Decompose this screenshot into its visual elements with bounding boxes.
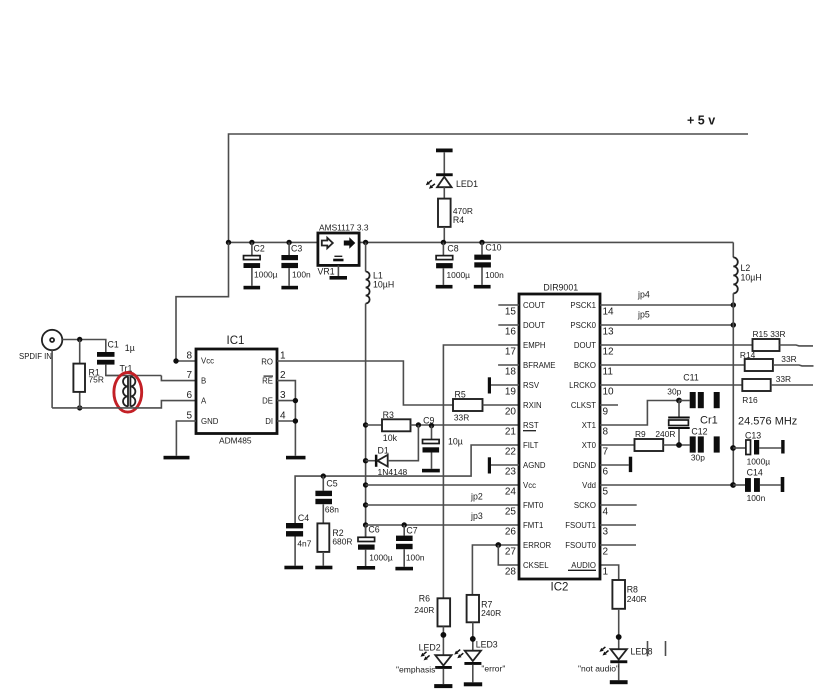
pin 2 FSOUT0 stub <box>600 544 636 546</box>
resistor R3 10k <box>363 422 368 427</box>
svg-text:3: 3 <box>603 527 609 538</box>
svg-text:XT0: XT0 <box>582 441 597 450</box>
resistor R16 33R <box>742 379 770 391</box>
wire connector ground loop <box>51 350 53 408</box>
junction C5 tap <box>321 473 326 478</box>
light arrows LED8 <box>599 647 608 656</box>
capacitor C7 100n <box>402 522 407 527</box>
svg-text:2: 2 <box>280 370 286 381</box>
stray tick marks right of LED8 <box>647 641 649 656</box>
wire 3.3V rail right segment (VR1 output to L2) <box>359 241 733 243</box>
svg-text:RST: RST <box>523 421 539 430</box>
svg-text:DOUT: DOUT <box>523 321 545 330</box>
svg-text:24.576 MHz: 24.576 MHz <box>738 416 797 428</box>
capacitor C9 10u electrolytic <box>431 426 433 440</box>
svg-text:15: 15 <box>505 307 517 318</box>
junction LED3 anode <box>470 636 476 642</box>
junction LED2 anode <box>441 632 447 638</box>
highlight red ellipse around Tr1 <box>114 373 142 413</box>
svg-text:240R: 240R <box>481 608 501 618</box>
resistor R4 470R <box>443 187 445 198</box>
svg-text:B: B <box>201 377 206 386</box>
svg-text:16: 16 <box>505 327 517 338</box>
svg-text:SPDIF IN: SPDIF IN <box>19 352 52 361</box>
svg-text:1000µ: 1000µ <box>747 457 771 467</box>
pin 5 Vdd <box>600 484 733 486</box>
led LED1 <box>443 152 445 176</box>
svg-text:C4: C4 <box>298 513 309 523</box>
svg-text:PSCK1: PSCK1 <box>570 301 596 310</box>
wire connector top to C1 <box>62 340 106 353</box>
capacitor C11 30p <box>679 400 690 402</box>
svg-text:11: 11 <box>603 367 614 378</box>
output arrow filled <box>344 237 356 248</box>
pin 7 XT0 <box>600 444 635 446</box>
crystal Cr1 <box>678 401 680 417</box>
svg-text:R9: R9 <box>635 429 646 439</box>
svg-text:10k: 10k <box>383 433 398 443</box>
light arrows LED3 <box>454 650 463 659</box>
svg-text:C5: C5 <box>326 478 337 488</box>
svg-text:LED3: LED3 <box>476 640 498 650</box>
svg-text:RE: RE <box>262 377 273 386</box>
svg-text:14: 14 <box>603 307 615 318</box>
svg-text:100n: 100n <box>292 270 311 280</box>
pin 15 COUT <box>498 304 519 306</box>
svg-text:CKSEL: CKSEL <box>523 561 549 570</box>
svg-text:VR1: VR1 <box>318 267 335 277</box>
svg-text:7: 7 <box>603 447 609 458</box>
capacitor C13 1000u electrolytic <box>733 447 746 449</box>
svg-text:4: 4 <box>280 411 286 422</box>
resistor R7 240R <box>467 595 479 622</box>
svg-text:100n: 100n <box>485 270 504 280</box>
wire VR1 gnd pin <box>337 265 339 276</box>
svg-text:Vdd: Vdd <box>582 481 596 490</box>
wire rail to IC1 Vcc pin8 <box>176 242 229 361</box>
inductor L2 10uH <box>732 242 734 257</box>
capacitor C10 100n <box>479 240 484 245</box>
svg-text:jp2: jp2 <box>470 492 483 502</box>
junction D1 riser <box>416 422 421 427</box>
pin 16 DOUT <box>498 324 519 326</box>
svg-text:AUDIO: AUDIO <box>571 561 596 570</box>
svg-text:R5: R5 <box>455 390 466 400</box>
svg-text:R3: R3 <box>383 410 394 420</box>
svg-text:R8: R8 <box>627 585 638 595</box>
svg-text:10µH: 10µH <box>741 273 762 283</box>
svg-text:26: 26 <box>505 527 517 538</box>
svg-text:680R: 680R <box>332 537 352 547</box>
svg-text:2: 2 <box>603 547 609 558</box>
junction C8/R4 on rail <box>441 240 446 245</box>
svg-text:XT1: XT1 <box>582 421 596 430</box>
svg-text:DI: DI <box>265 417 273 426</box>
svg-text:Vcc: Vcc <box>523 481 536 490</box>
svg-text:33R: 33R <box>776 374 791 384</box>
svg-text:33R: 33R <box>781 354 796 364</box>
svg-text:8: 8 <box>186 351 192 362</box>
svg-text:R4: R4 <box>453 215 464 225</box>
inductor L1 10uH <box>365 242 367 271</box>
wire RST row R3 to IC2 pin21 <box>411 424 520 426</box>
junction R1 top <box>77 337 82 342</box>
svg-text:LRCKO: LRCKO <box>569 381 596 390</box>
svg-text:1: 1 <box>603 567 609 578</box>
svg-text:20: 20 <box>505 407 517 418</box>
svg-text:IC1: IC1 <box>227 335 245 347</box>
svg-text:17: 17 <box>505 347 517 358</box>
svg-text:27: 27 <box>505 547 517 558</box>
svg-text:+ 5 v: + 5 v <box>687 114 715 128</box>
pin 9 CLKST stub <box>600 404 618 406</box>
wire Vcc row pin24 <box>363 482 368 487</box>
wire FILT net pin22 to C5/C4 <box>295 445 519 523</box>
resistor R6 240R <box>438 598 451 626</box>
svg-text:5: 5 <box>186 411 192 422</box>
junction XT1 node <box>676 398 682 404</box>
svg-text:24: 24 <box>505 487 517 498</box>
wire Tr1 secondary top to IC1 pin7 <box>161 376 196 381</box>
pin 12 DOUT <box>600 344 753 346</box>
pin 8 XT1 <box>600 401 679 426</box>
resistor R9 240R <box>635 439 664 451</box>
ground IC1 left <box>164 456 190 460</box>
svg-text:6: 6 <box>603 467 609 478</box>
pin 14 PSCK1 <box>600 304 733 306</box>
svg-text:7: 7 <box>186 370 192 381</box>
svg-text:1N4148: 1N4148 <box>378 467 408 477</box>
svg-text:1: 1 <box>280 351 286 362</box>
wire CKSEL pin28 riser <box>498 545 519 565</box>
svg-text:C7: C7 <box>406 526 417 536</box>
svg-text:C13: C13 <box>745 431 761 441</box>
svg-text:68n: 68n <box>325 504 339 514</box>
svg-text:LED8: LED8 <box>631 647 653 657</box>
svg-text:1000µ: 1000µ <box>254 270 278 280</box>
svg-text:Vcc: Vcc <box>201 357 214 366</box>
led LED3 <box>465 651 481 661</box>
led LED8 "not audio" <box>611 649 627 659</box>
svg-text:AGND: AGND <box>523 461 546 470</box>
svg-text:R16: R16 <box>742 395 758 405</box>
svg-text:L2: L2 <box>741 263 751 273</box>
svg-text:BCKO: BCKO <box>574 361 596 370</box>
svg-text:BFRAME: BFRAME <box>523 361 556 370</box>
svg-text:RXIN: RXIN <box>523 401 542 410</box>
svg-text:FSOUT1: FSOUT1 <box>565 521 596 530</box>
svg-text:100n: 100n <box>406 553 425 563</box>
svg-text:A: A <box>201 397 207 406</box>
svg-text:ERROR: ERROR <box>523 541 552 550</box>
svg-text:Cr1: Cr1 <box>700 415 718 427</box>
svg-text:9: 9 <box>603 407 609 418</box>
svg-text:R14: R14 <box>740 350 756 360</box>
diode D1 1N4148 <box>363 458 368 463</box>
light arrows LED2 <box>421 652 430 661</box>
svg-text:jp4: jp4 <box>637 290 650 300</box>
svg-text:1000µ: 1000µ <box>447 270 471 280</box>
svg-text:22: 22 <box>505 447 517 458</box>
svg-text:12: 12 <box>603 347 615 358</box>
svg-text:240R: 240R <box>414 605 434 615</box>
svg-text:AMS1117 3.3: AMS1117 3.3 <box>319 223 369 233</box>
svg-text:GND: GND <box>201 417 219 426</box>
svg-text:4n7: 4n7 <box>297 539 311 549</box>
svg-text:C8: C8 <box>447 244 458 254</box>
capacitor C2 1000u electrolytic <box>249 240 254 245</box>
pin 3 FSOUT1 stub <box>600 524 636 526</box>
svg-text:FSOUT0: FSOUT0 <box>565 541 596 550</box>
svg-text:jp5: jp5 <box>637 310 650 320</box>
regulator VR1 AMS1117 3.3 <box>318 233 359 265</box>
svg-text:FMT1: FMT1 <box>523 521 543 530</box>
svg-text:RO: RO <box>261 358 273 367</box>
svg-text:DE: DE <box>262 397 273 406</box>
resistor R14 33R <box>745 359 773 371</box>
svg-text:R6: R6 <box>419 594 430 604</box>
pin 11 BCKO <box>600 364 745 366</box>
power tap bar above LED1 <box>436 149 453 153</box>
op-amp IC1 ADM485 body <box>196 349 277 434</box>
svg-text:8: 8 <box>603 427 609 438</box>
wire IC1 pin3 DE <box>277 400 295 402</box>
svg-text:30p: 30p <box>691 453 705 463</box>
svg-text:FMT0: FMT0 <box>523 501 544 510</box>
svg-text:13: 13 <box>603 327 615 338</box>
wire AUDIO pin1 to R8 <box>600 565 619 580</box>
capacitor C12 30p <box>690 436 696 452</box>
junction IC1 pin8 <box>173 358 178 363</box>
led LED2 <box>435 655 451 665</box>
ground IC1 right <box>286 456 306 460</box>
svg-text:DIR9001: DIR9001 <box>543 283 578 293</box>
junction CKSEL riser <box>495 542 501 548</box>
capacitor C8 1000u electrolytic <box>442 242 444 255</box>
wire Tr1 secondary bottom to IC1 pin6 <box>52 401 196 408</box>
svg-text:6: 6 <box>186 390 192 401</box>
capacitor C5 68n <box>322 476 324 491</box>
svg-text:SCKO: SCKO <box>574 501 596 510</box>
svg-text:240R: 240R <box>627 594 647 604</box>
svg-text:33R: 33R <box>454 412 469 422</box>
IC2 DIR9001 body <box>519 294 600 579</box>
pin 18 BFRAME <box>498 364 519 366</box>
wire FMT0 row pin25 <box>363 502 368 507</box>
svg-text:C9: C9 <box>423 415 434 425</box>
light arrows LED1 <box>426 180 435 189</box>
svg-text:1000µ: 1000µ <box>369 553 393 563</box>
capacitor C1 1u <box>97 352 115 357</box>
svg-text:21: 21 <box>505 427 517 438</box>
svg-text:19: 19 <box>505 387 517 398</box>
junction VR1 output <box>363 240 368 245</box>
capacitor C4 4n7 <box>286 523 303 528</box>
pin 19 RSV with stub terminal <box>491 384 519 386</box>
svg-text:C1: C1 <box>108 340 119 350</box>
svg-text:C3: C3 <box>291 244 302 254</box>
wire FMT1 row pin26 <box>363 522 368 527</box>
wire 3.3V rail left segment (input to VR1) <box>229 241 318 243</box>
junction C9 tap <box>429 423 434 428</box>
junction LED8 anode <box>616 634 622 640</box>
junction rail/IC1-Vcc branch <box>226 240 231 245</box>
resistor R15 33R <box>753 339 780 351</box>
wire IC1 pin2 RE down <box>277 381 295 456</box>
resistor R2 680R in series <box>322 504 324 523</box>
pin 10 LRCKO <box>600 384 742 386</box>
svg-text:DGND: DGND <box>573 461 596 470</box>
svg-text:4: 4 <box>603 507 609 518</box>
pin 4 SCKO stub <box>600 504 637 506</box>
wire L1 to lower nets <box>365 304 367 538</box>
svg-text:RSV: RSV <box>523 381 540 390</box>
svg-text:3: 3 <box>280 390 286 401</box>
wire top +5v rail horizontal <box>229 134 749 242</box>
wire R5 to IC2 pin20 RXIN <box>483 404 520 406</box>
input arrow outline <box>322 238 333 248</box>
svg-text:"error": "error" <box>481 663 505 673</box>
resistor R8 240R <box>612 580 625 609</box>
ground VR1 <box>330 276 348 280</box>
resistor R5 33R <box>453 399 483 411</box>
svg-text:C2: C2 <box>254 244 265 254</box>
svg-text:PSCK0: PSCK0 <box>570 321 596 330</box>
svg-text:10µH: 10µH <box>373 280 394 290</box>
wire IC1 pin1 RO to RXIN <box>277 361 453 405</box>
svg-text:DOUT: DOUT <box>574 341 596 350</box>
pin 13 PSCK0 <box>600 324 733 326</box>
svg-text:R15 33R: R15 33R <box>753 329 786 339</box>
svg-text:1µ: 1µ <box>125 343 135 353</box>
svg-text:23: 23 <box>505 467 517 478</box>
svg-text:C10: C10 <box>485 243 501 253</box>
connector SPDIF IN <box>42 330 62 350</box>
svg-text:ADM485: ADM485 <box>219 436 252 446</box>
svg-text:LED1: LED1 <box>456 179 478 189</box>
svg-text:"not audio": "not audio" <box>578 664 619 674</box>
svg-text:18: 18 <box>505 367 517 378</box>
svg-text:25: 25 <box>505 507 517 518</box>
pin 23 AGND with stub terminal <box>491 464 519 466</box>
wire EMPH pin17 to R6 <box>443 345 519 598</box>
svg-text:10: 10 <box>603 387 615 398</box>
svg-text:C11: C11 <box>683 373 699 383</box>
pin 6 DGND with stub terminal <box>600 464 629 466</box>
svg-text:10µ: 10µ <box>448 437 463 447</box>
svg-text:C6: C6 <box>368 525 379 535</box>
svg-text:LED2: LED2 <box>419 643 441 653</box>
svg-text:D1: D1 <box>378 446 389 456</box>
wire L2 column down <box>732 293 734 485</box>
junction XT0 node <box>676 442 682 448</box>
svg-text:COUT: COUT <box>523 301 545 310</box>
wire IC1 pin5 GND to ground <box>176 421 196 456</box>
junction R1 bottom <box>77 405 82 410</box>
capacitor C14 100n <box>733 484 745 486</box>
svg-text:240R: 240R <box>655 429 675 439</box>
capacitor C6 1000u electrolytic <box>365 525 367 537</box>
svg-text:5: 5 <box>603 487 609 498</box>
svg-text:jp3: jp3 <box>470 511 483 521</box>
resistor R1 75R <box>79 340 81 364</box>
svg-text:C12: C12 <box>691 427 707 437</box>
svg-text:EMPH: EMPH <box>523 341 546 350</box>
svg-text:"emphasis": "emphasis" <box>396 664 438 674</box>
svg-text:IC2: IC2 <box>551 582 569 594</box>
svg-text:CLKST: CLKST <box>571 401 596 410</box>
wire IC1 pin4 DI <box>277 420 295 422</box>
regulator gnd tab symbol <box>334 255 342 257</box>
svg-text:FILT: FILT <box>523 441 539 450</box>
svg-text:28: 28 <box>505 567 517 578</box>
svg-text:C14: C14 <box>747 468 763 478</box>
svg-text:75R: 75R <box>89 375 104 385</box>
wire ERROR pin27 to R7 <box>472 545 519 595</box>
svg-text:30p: 30p <box>667 387 681 397</box>
svg-text:100n: 100n <box>747 493 766 503</box>
capacitor C3 100n <box>286 240 291 245</box>
